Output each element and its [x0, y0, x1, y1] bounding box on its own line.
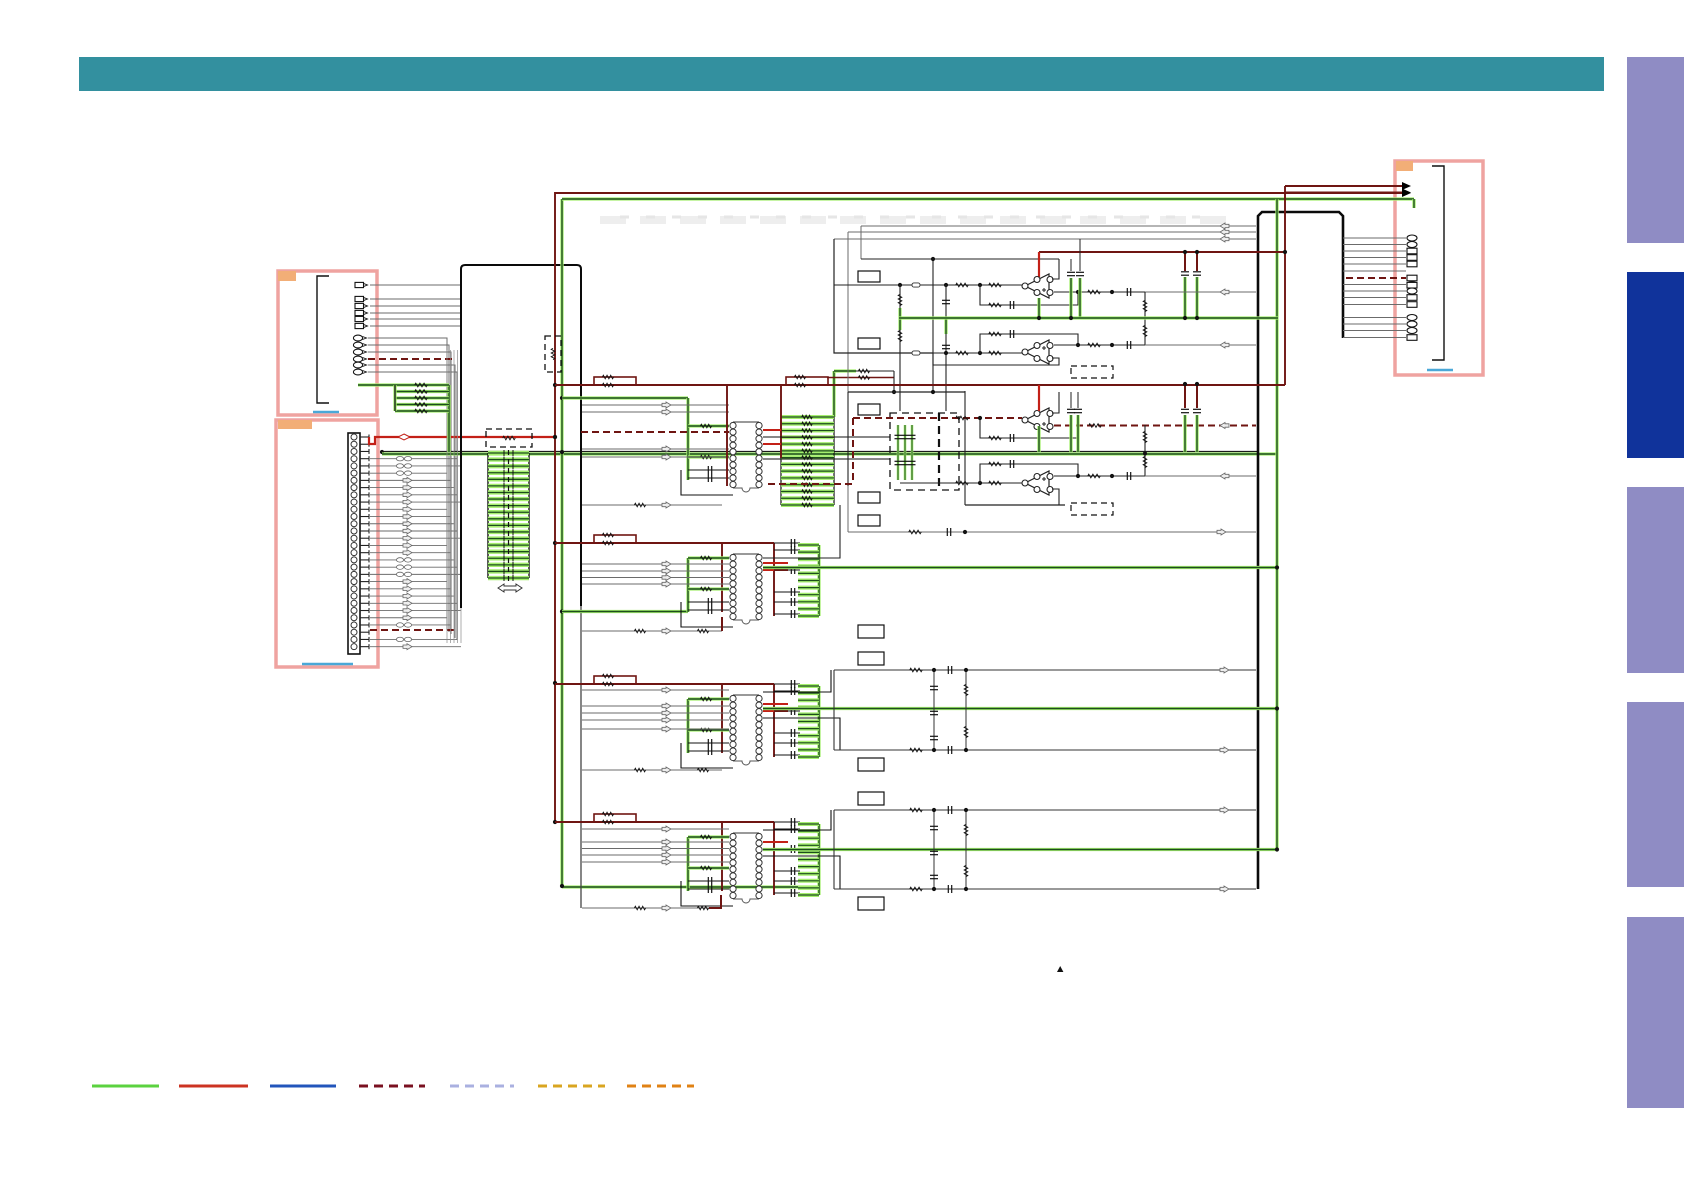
T1 out wires — [763, 437, 890, 459]
green pri row1 — [688, 398, 729, 480]
T1 ladder supply — [827, 369, 896, 417]
net maroon feed row3 — [555, 684, 774, 757]
input wires row3 — [582, 687, 729, 732]
wire row4 bottom — [582, 895, 721, 911]
bias chain A2 — [942, 285, 950, 411]
dashed net into T1 — [581, 431, 729, 433]
pri caps row2 — [681, 598, 733, 627]
op-amp U2B — [1022, 340, 1053, 364]
supply caps B — [1181, 382, 1201, 452]
transformer T1 — [730, 422, 762, 492]
net VCC top maroon — [555, 189, 1411, 822]
connector CN1 pins — [353, 282, 367, 375]
IC U1 — [461, 265, 581, 608]
legend orange dashed — [627, 1085, 694, 1088]
dashed box on maroon rail — [545, 336, 561, 372]
resistor grid green — [395, 383, 449, 413]
marker triangle — [1057, 966, 1063, 972]
connector CN2 pin stubs — [360, 435, 369, 650]
net maroon rail2 — [555, 375, 1285, 387]
connector CN2 pin strip — [348, 433, 360, 654]
relay box B1 — [858, 404, 880, 415]
green stub A out — [1037, 298, 1040, 318]
IC ladder bars — [488, 450, 529, 581]
relay box R4b — [858, 897, 884, 910]
pri caps row3 — [681, 739, 733, 768]
green pri row3 — [688, 697, 729, 753]
pri caps row1 — [681, 466, 733, 495]
transformer T4 — [730, 833, 762, 903]
nav tab 2 (active) — [1627, 272, 1684, 458]
green pri row4 — [688, 835, 729, 891]
opamp U2A output — [1054, 288, 1256, 296]
relay box R3b — [858, 758, 884, 771]
resistor jog row2 — [594, 533, 636, 545]
connector CN2 blue link — [302, 663, 353, 665]
transformer T3 — [730, 695, 762, 765]
input wires row4 — [582, 826, 729, 865]
sec out wires row3 — [763, 670, 840, 750]
CN3 dashed wire — [1343, 271, 1417, 288]
legend gold dashed — [538, 1085, 605, 1088]
opamp U3B output — [1054, 472, 1256, 480]
CN2 ground wire pair — [380, 450, 1258, 454]
relay box B3 — [858, 515, 880, 526]
connector CN3 blue link — [1427, 369, 1453, 371]
sec caps row4 — [774, 818, 800, 897]
T1 ladder wide — [781, 415, 834, 507]
input wires row1 — [582, 402, 729, 460]
op-amp U3A — [1022, 408, 1053, 432]
transformer T2 — [730, 554, 762, 624]
bias chain A1 — [898, 285, 902, 411]
CN2 red supply wire — [369, 434, 557, 444]
nav tab 4 — [1627, 702, 1684, 887]
net maroon feed row1 — [0, 0, 1, 1]
sec out wires row1 — [0, 0, 1, 1]
wire row2 sense — [848, 486, 1256, 536]
T1 maroon pri vertical — [726, 385, 728, 486]
feedback loop U3A — [956, 416, 1078, 442]
connector CN3 bracket — [1432, 166, 1444, 360]
CN2 dashed wire — [370, 629, 455, 631]
T1 red stubs — [763, 430, 781, 444]
relay box A2 — [858, 338, 880, 349]
net audio row2 green — [763, 566, 1277, 569]
sec out wires row2 — [0, 0, 1, 1]
wire bundle vertical — [447, 350, 461, 643]
block B frame — [848, 390, 1065, 505]
block A top wires — [834, 223, 1256, 392]
opamp U3B minus loop — [1052, 489, 1059, 505]
IC ladder left rail — [487, 453, 489, 578]
filter box row3 — [834, 666, 1256, 754]
net audio row3 green — [763, 707, 1277, 710]
legend dark red dashed — [359, 1085, 425, 1088]
green caps B — [1067, 392, 1082, 452]
resistor jog row3 — [594, 674, 636, 686]
filter box row4 — [834, 806, 1256, 893]
green branch row2 — [562, 610, 688, 613]
op-amp U2A — [1022, 274, 1053, 298]
feedback loop B — [980, 330, 1078, 353]
legend blue — [270, 1085, 336, 1088]
sec ladder row4 — [798, 824, 819, 895]
sec ladder row2 — [798, 545, 819, 616]
dashed box A — [1071, 366, 1113, 378]
opamp U3A supply red — [1038, 385, 1040, 411]
junction dots on maroon rail — [553, 383, 557, 824]
opamp U2A input network — [834, 283, 1022, 287]
CN3 fan wires — [1343, 235, 1417, 340]
connector CN1 blue link — [313, 411, 339, 413]
dashed net from CN1 pin — [368, 358, 455, 360]
opamp U2B input — [834, 351, 1022, 355]
wire row1 bottom — [582, 502, 722, 508]
sec red stubs row2 — [763, 563, 788, 570]
T1 maroon drop — [780, 385, 782, 458]
connector CN3 box — [1395, 161, 1483, 375]
pri caps row4 — [681, 877, 733, 906]
net maroon opamp supply — [1039, 186, 1287, 385]
opamp U2A plus wire — [1052, 259, 1059, 279]
connector CN2 box — [276, 420, 378, 667]
T2 to block B link — [763, 505, 840, 558]
green caps A — [1067, 239, 1084, 318]
interstage resistor B — [1143, 425, 1147, 476]
opamp U3A plus wire — [1052, 392, 1059, 413]
green pri row2 — [688, 556, 729, 612]
sec red stubs row4 — [763, 842, 788, 849]
relay box R4a — [858, 792, 884, 805]
green stub U3A — [1037, 426, 1040, 452]
net audio row4 green — [763, 848, 1277, 851]
sec caps row3 — [774, 680, 800, 759]
dashed filter box B — [890, 413, 959, 490]
supply caps A — [1181, 250, 1201, 318]
relay box B2 — [858, 492, 880, 503]
net top green — [562, 199, 1414, 886]
CN3 supply arrows — [1285, 182, 1411, 197]
opamp U2B output — [1054, 341, 1256, 349]
sec red stubs row3 — [763, 704, 788, 711]
interstage resistor A — [1143, 292, 1147, 345]
connector CN1 box — [278, 271, 377, 415]
faint watermark band — [600, 217, 1240, 220]
net maroon feed row4 — [555, 822, 774, 895]
nav tab 3 — [1627, 487, 1684, 673]
block A frame — [834, 239, 1059, 392]
wire row3 bottom — [582, 767, 722, 773]
sec ladder row3 — [798, 686, 819, 757]
dashed input net B — [768, 418, 1022, 484]
dashed box B — [1071, 503, 1113, 515]
net maroon feed row2 — [555, 543, 774, 616]
wire row2 bottom — [582, 617, 722, 634]
input wires row2 — [582, 561, 729, 587]
relay box R3a — [858, 652, 884, 665]
opamp U2A supply red — [1038, 252, 1040, 277]
feedback loop U3B — [980, 460, 1078, 483]
opamp U3B input — [900, 481, 1022, 485]
ladder arrow symbol — [498, 584, 522, 592]
legend green — [92, 1085, 159, 1088]
connector CN1 wires to IC — [370, 285, 461, 326]
op-amp U3B — [1022, 471, 1053, 495]
sec caps row2 — [774, 539, 800, 618]
relay box R2a — [858, 625, 884, 638]
CN3 pin fan trunk — [1258, 212, 1343, 889]
relay box A1 — [858, 271, 880, 282]
IC ladder right rail — [528, 453, 530, 578]
CN2 signal wires — [370, 456, 461, 649]
connector CN1 bracket — [317, 276, 329, 403]
net bottom green — [562, 885, 819, 888]
net right green vertical — [1275, 199, 1278, 850]
connector CN1 lower wire fan — [368, 338, 457, 640]
opamp U2B minus loop — [933, 353, 1059, 365]
sec out wires row4 — [763, 810, 840, 889]
net analog green A — [899, 316, 1278, 319]
junction dots on green rail — [560, 396, 564, 888]
feedback loop A — [980, 285, 1078, 309]
IC ladder center dashed — [508, 450, 510, 581]
IC feed grey vertical — [580, 606, 582, 908]
dashed output net B — [1054, 423, 1256, 429]
green branch to ladder grid — [358, 385, 449, 452]
legend red — [179, 1085, 248, 1088]
green branch row1 — [562, 396, 688, 399]
legend lavender dashed — [450, 1085, 514, 1088]
net highlight row1 green — [382, 452, 1277, 455]
header bar — [79, 57, 1604, 91]
nav tab 5 — [1627, 917, 1684, 1108]
resistor jog row4 — [594, 812, 636, 824]
dashed box on red feed — [486, 429, 532, 447]
nav tab 1 — [1627, 57, 1684, 243]
